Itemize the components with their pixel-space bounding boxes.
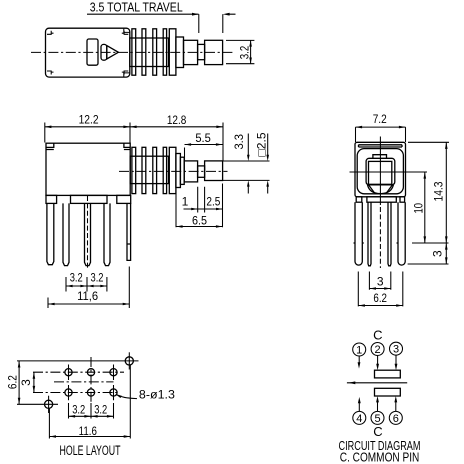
- hole r1c3: [110, 369, 117, 376]
- pin D: [104, 203, 110, 265]
- svg-text:3: 3: [19, 379, 33, 386]
- wire pin5 to bottom contact: [377, 401, 379, 411]
- svg-text:2: 2: [375, 344, 381, 356]
- hole r2c1: [65, 389, 72, 396]
- plunger cap: [205, 40, 223, 64]
- dimension 3.3: [247, 134, 249, 194]
- wire pin6 to bottom contact: [395, 401, 397, 411]
- dimension 7.2 line: [356, 126, 406, 128]
- svg-text:11.6: 11.6: [79, 424, 98, 438]
- latch cone tip: [107, 46, 119, 59]
- inner wall: [357, 149, 403, 194]
- svg-text:1: 1: [182, 194, 189, 208]
- plunger inner: [369, 161, 392, 184]
- bellows fin 3: [153, 147, 157, 193]
- svg-text:14.3: 14.3: [432, 181, 446, 201]
- svg-text:8-ø1.3: 8-ø1.3: [139, 387, 175, 401]
- dimension 10 line: [424, 172, 426, 243]
- bracket hole crosshair bottom left: [48, 396, 50, 413]
- stub left: [356, 197, 362, 202]
- latch button inside body: [87, 39, 98, 65]
- plunger shaft: [184, 40, 198, 64]
- plunger shaft: [184, 161, 197, 182]
- stub left: [46, 195, 57, 203]
- bracket pin left: [354, 202, 364, 265]
- plunger outer: [366, 158, 395, 185]
- svg-text:12.2: 12.2: [79, 112, 99, 126]
- stub right: [400, 197, 405, 202]
- crosshair vertical: [379, 137, 381, 206]
- corner mark TR: [122, 31, 129, 35]
- stub center: [367, 197, 396, 202]
- pin A: [47, 203, 54, 264]
- collar: [169, 29, 176, 75]
- extension lines right of cap: [223, 161, 270, 180]
- center dashed line: [87, 196, 89, 268]
- svg-text:3.3: 3.3: [232, 134, 246, 150]
- svg-text:3.2: 3.2: [72, 402, 85, 416]
- dome skirt: [368, 185, 394, 194]
- svg-text:3.2: 3.2: [238, 45, 252, 59]
- hole r1c2: [87, 369, 94, 376]
- dimension 11.6 line: [48, 303, 129, 305]
- pin 3: [390, 342, 403, 355]
- pin 1: [353, 343, 366, 356]
- dimension 3 right line: [445, 243, 447, 264]
- svg-text:3.2: 3.2: [91, 270, 104, 284]
- pin C: [85, 203, 91, 265]
- svg-text:HOLE LAYOUT: HOLE LAYOUT: [60, 443, 121, 458]
- bracket hole bottom left: [45, 400, 53, 408]
- svg-text:5.5: 5.5: [195, 131, 211, 145]
- dimension line 1 / 2.5: [184, 208, 223, 210]
- extension lines 3.2 pins: [66, 277, 107, 292]
- pin 6: [389, 411, 402, 424]
- plunger tab: [373, 155, 387, 159]
- bellows fin 2: [142, 147, 146, 193]
- svg-text:C: C: [373, 424, 382, 439]
- svg-text:11,6: 11,6: [77, 289, 98, 303]
- crosshair horizontal: [350, 171, 428, 173]
- dimension 3 line bottom: [369, 288, 390, 290]
- dimension 12.8 line: [130, 126, 223, 128]
- movable contact bar top: [375, 370, 401, 378]
- dimension 6.2 line: [18, 361, 20, 404]
- extension lines 1 / 2.5: [176, 184, 223, 228]
- dimension 6.2 line: [358, 305, 403, 307]
- movable contact bar bottom: [375, 388, 401, 396]
- corner mark BL: [47, 71, 54, 75]
- centerline: [31, 51, 234, 53]
- stub center: [71, 195, 108, 203]
- center dashed line: [379, 207, 381, 268]
- bellows fin 1: [132, 147, 136, 193]
- dome diagonals: [369, 185, 393, 193]
- extension line 14.3 top: [408, 141, 449, 143]
- dimension 3.2 3.2 line: [69, 415, 114, 417]
- bellows fin 4: [163, 147, 166, 193]
- extension line 6.2 bottom: [17, 403, 58, 405]
- dimension 11.6 line: [49, 436, 130, 438]
- svg-text:1: 1: [356, 345, 362, 357]
- hole r2c3: [110, 389, 117, 396]
- pin E bracket: [127, 203, 131, 260]
- switch body: [46, 28, 130, 77]
- extension line a: [198, 14, 200, 33]
- svg-text:7.2: 7.2: [373, 112, 387, 126]
- bracket pin right: [397, 202, 406, 265]
- top plate: [359, 145, 403, 147]
- leader 8-dia1.3: [116, 395, 137, 399]
- pin 5: [371, 411, 384, 424]
- extension lines 3.2: [226, 40, 254, 63]
- common wire: [347, 382, 407, 384]
- step: [176, 154, 181, 188]
- extension lines 3 bottom: [369, 272, 390, 290]
- plunger cap: [205, 161, 223, 181]
- arrow right: [192, 13, 199, 16]
- corner mark BR: [122, 71, 129, 75]
- stub right: [117, 195, 131, 203]
- step: [176, 37, 184, 68]
- row centerline 1: [33, 371, 124, 373]
- centerline: [119, 170, 228, 172]
- extension line y243: [412, 242, 449, 244]
- svg-text:3.2: 3.2: [94, 402, 107, 416]
- middle pin left: [368, 202, 371, 266]
- svg-text:6: 6: [393, 413, 399, 425]
- pin B: [63, 203, 69, 265]
- svg-text:2.5: 2.5: [206, 194, 220, 208]
- switch body: [46, 143, 130, 195]
- svg-text:6.2: 6.2: [5, 375, 19, 389]
- mid centerline: [54, 381, 114, 383]
- step 2: [180, 157, 184, 184]
- hole r2c2: [87, 389, 94, 396]
- body outline: [355, 142, 406, 197]
- svg-text:12.8: 12.8: [167, 113, 187, 127]
- svg-text:3: 3: [377, 274, 384, 288]
- dimension 14.3 line: [445, 142, 447, 243]
- pin 2: [371, 343, 384, 356]
- svg-text:C: C: [373, 327, 382, 342]
- ear box left: [46, 143, 54, 149]
- wire pin1 open contact: [358, 356, 360, 363]
- bellows band: [130, 38, 169, 67]
- bellows fin 3: [153, 29, 157, 75]
- extension line y264: [408, 263, 449, 265]
- dimension 3.2 3.2 line: [66, 285, 107, 287]
- dimension 5.5 line: [185, 144, 223, 146]
- svg-text:3.2: 3.2: [70, 270, 83, 284]
- dimension 12.2 line: [45, 126, 130, 128]
- arrow left: [223, 13, 230, 16]
- svg-text:□2.5: □2.5: [254, 132, 268, 156]
- column ticks left: [68, 365, 70, 401]
- bracket hole crosshair top right: [128, 352, 130, 369]
- svg-text:10: 10: [412, 203, 426, 214]
- svg-text:6.5: 6.5: [192, 214, 207, 228]
- extension line b: [222, 14, 224, 33]
- bellows fin 4: [163, 29, 166, 75]
- extension lines 6.2: [358, 272, 403, 307]
- wire pin3 to movable contact: [395, 356, 397, 365]
- extension lines 7.2: [356, 127, 406, 142]
- svg-text:3: 3: [430, 250, 444, 257]
- dimension 3.5 line: [87, 13, 236, 15]
- hole r1c1: [65, 369, 72, 376]
- ear box right: [124, 143, 130, 149]
- latch cone base: [101, 44, 107, 60]
- dimension square 2.5: [267, 134, 269, 194]
- collar: [169, 147, 176, 193]
- bellows fin 1: [132, 29, 136, 75]
- svg-text:3.5 TOTAL TRAVEL: 3.5 TOTAL TRAVEL: [90, 0, 183, 14]
- corner mark TL: [47, 31, 54, 35]
- svg-text:C. COMMON PIN: C. COMMON PIN: [340, 451, 420, 464]
- bellows fin 2: [142, 29, 146, 75]
- plunger neck: [198, 44, 205, 59]
- svg-text:3: 3: [393, 344, 399, 356]
- column ticks right: [113, 365, 115, 401]
- plunger neck: [198, 166, 205, 177]
- extension line 5.5 left: [184, 148, 186, 161]
- pin 4: [353, 411, 366, 424]
- extension lines 11.6: [48, 267, 129, 309]
- dimension 3.2 line: [250, 40, 252, 63]
- bellows band: [130, 156, 168, 183]
- column centerline center: [90, 357, 92, 405]
- dimension 6.5 line: [176, 226, 223, 228]
- middle pin right: [388, 202, 391, 266]
- wire pin4 open contact: [358, 402, 360, 411]
- body right edge notches: [124, 29, 130, 77]
- row centerline 2: [33, 392, 118, 394]
- extension lines 11.6: [49, 366, 130, 439]
- extension line 6.2 top: [17, 360, 139, 362]
- bracket hole top right: [125, 357, 133, 365]
- dimension 3 line: [33, 372, 35, 392]
- svg-text:6.2: 6.2: [373, 291, 387, 305]
- wire pin2 to movable contact: [377, 356, 379, 364]
- svg-text:4: 4: [356, 413, 362, 425]
- extension lines 3.2 holes: [69, 403, 114, 419]
- extension lines: [45, 123, 223, 162]
